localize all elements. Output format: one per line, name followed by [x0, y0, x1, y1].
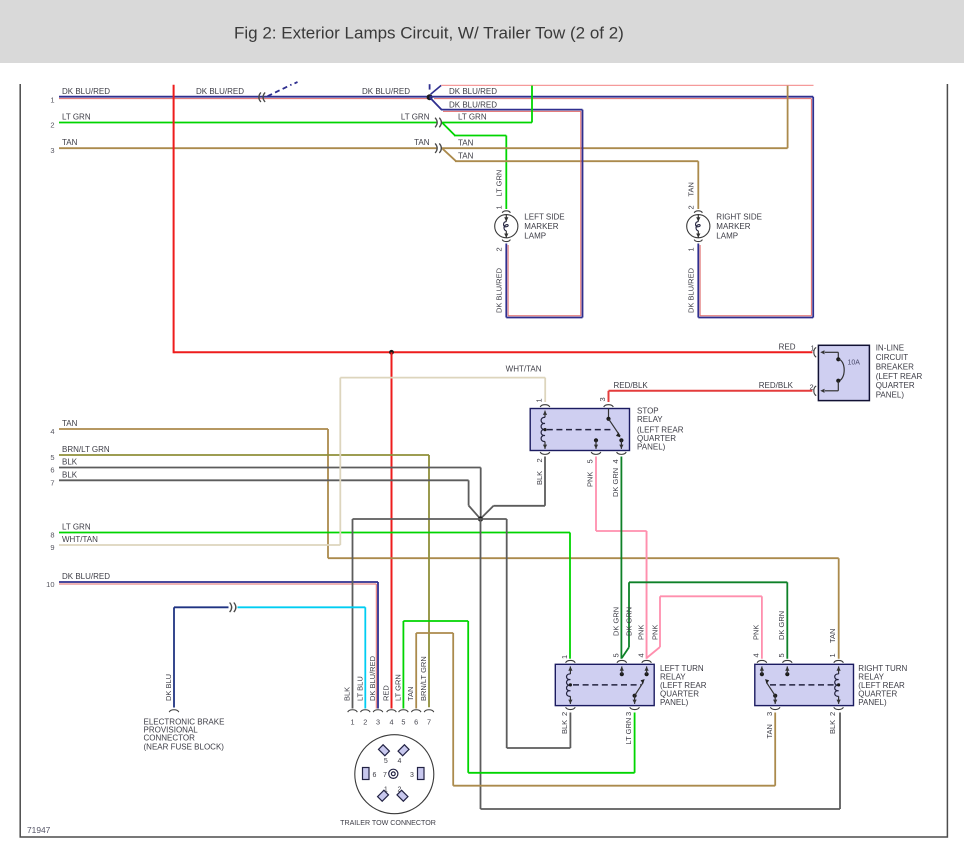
svg-text:RIGHT SIDE: RIGHT SIDE — [716, 213, 762, 222]
trailer connector pin 4 — [398, 745, 409, 756]
trailer connector pin 7 center — [389, 769, 398, 778]
stop relay switch — [608, 409, 610, 419]
dashed continuation stub on wire 1 — [268, 85, 292, 97]
svg-text:RELAY: RELAY — [637, 415, 663, 424]
svg-text:DK BLU/RED: DK BLU/RED — [449, 87, 497, 96]
svg-text:TAN: TAN — [828, 629, 837, 643]
svg-text:PANEL): PANEL) — [637, 442, 666, 451]
RED wire vertical to trailer pin 4 — [391, 352, 393, 708]
svg-text:LAMP: LAMP — [524, 232, 546, 241]
trailer connector pin 1 — [378, 790, 389, 801]
junction dot wire 1 — [427, 94, 433, 100]
stop relay coil — [544, 411, 546, 418]
left relay LT GRN pin 3 wire — [634, 713, 636, 773]
svg-text:5: 5 — [777, 653, 786, 657]
svg-text:DK BLU/RED: DK BLU/RED — [449, 101, 497, 110]
DK BLU wire electronic brake connector — [173, 607, 175, 707]
svg-text:DK BLU/RED: DK BLU/RED — [62, 572, 110, 581]
svg-text:BLK: BLK — [535, 471, 544, 485]
svg-text:MARKER: MARKER — [524, 222, 558, 231]
svg-text:DK GRN: DK GRN — [777, 611, 786, 640]
RED wire vertical from top — [173, 85, 175, 353]
svg-text:Fig 2: Exterior Lamps Circuit,: Fig 2: Exterior Lamps Circuit, W/ Traile… — [234, 24, 624, 43]
svg-text:BLK: BLK — [62, 470, 78, 479]
svg-text:DK GRN: DK GRN — [625, 607, 634, 636]
stop relay pin claws — [540, 405, 550, 407]
svg-text:2: 2 — [363, 717, 367, 726]
right turn relay switch — [760, 672, 764, 676]
svg-text:DK GRN: DK GRN — [612, 607, 621, 636]
stop relay box — [530, 409, 629, 451]
svg-text:1: 1 — [686, 247, 695, 251]
svg-text:4: 4 — [611, 459, 620, 463]
svg-text:TAN: TAN — [458, 151, 474, 160]
svg-text:LT GRN: LT GRN — [458, 112, 487, 121]
svg-text:3: 3 — [624, 712, 633, 716]
svg-text:BREAKER: BREAKER — [876, 362, 914, 371]
PNK wire left relay pin 4 to right relay pin 4 — [647, 647, 660, 658]
svg-text:TAN: TAN — [62, 138, 78, 147]
stop relay dashed line — [547, 429, 612, 431]
wire 1 DK BLU/RED horizontal — [59, 96, 430, 98]
stop relay PNK pin 5 wire — [595, 457, 597, 532]
svg-text:2: 2 — [810, 382, 814, 391]
svg-text:BLK: BLK — [560, 720, 569, 734]
BLK wire junction to right turn relay pin 2 — [480, 519, 482, 809]
svg-text:1: 1 — [828, 653, 837, 657]
svg-text:CONNECTOR: CONNECTOR — [144, 733, 196, 742]
svg-text:7: 7 — [50, 478, 54, 487]
wire 2 LT GRN horizontal — [59, 122, 437, 124]
svg-text:5: 5 — [401, 717, 405, 726]
svg-text:1: 1 — [560, 655, 569, 659]
wire 1 branch to right side lamp circuit — [430, 96, 814, 98]
BLK junction dot — [478, 516, 483, 521]
svg-text:BRN/LT GRN: BRN/LT GRN — [62, 445, 110, 454]
svg-text:4: 4 — [637, 653, 646, 657]
wire 3 branch B to right marker lamp — [443, 149, 457, 162]
svg-text:PANEL): PANEL) — [660, 698, 689, 707]
svg-text:TAN: TAN — [686, 182, 695, 196]
svg-text:2: 2 — [560, 712, 569, 716]
svg-text:4: 4 — [398, 758, 402, 765]
svg-text:4: 4 — [752, 653, 761, 657]
svg-text:QUARTER: QUARTER — [876, 381, 915, 390]
inline connector on wire 1 — [259, 92, 261, 102]
svg-text:RED/BLK: RED/BLK — [614, 381, 649, 390]
svg-text:71947: 71947 — [27, 825, 51, 835]
svg-text:2: 2 — [494, 247, 503, 251]
RED wire horizontal to in-line circuit breaker — [174, 351, 813, 353]
right turn relay box — [755, 664, 854, 705]
svg-text:DK BLU/RED: DK BLU/RED — [368, 655, 377, 701]
trailer pin claws and numbers — [348, 710, 358, 712]
wire 7 BLK — [59, 479, 469, 481]
wire 2 branch A to top — [442, 122, 532, 124]
svg-text:10A: 10A — [848, 360, 861, 367]
svg-text:DK BLU/RED: DK BLU/RED — [494, 267, 503, 313]
svg-text:WHT/TAN: WHT/TAN — [506, 365, 542, 374]
svg-text:LT GRN: LT GRN — [401, 112, 430, 121]
right relay TAN pin 3 wire — [774, 713, 776, 786]
title header bar — [0, 0, 964, 63]
svg-text:DK BLU/RED: DK BLU/RED — [62, 87, 110, 96]
svg-text:TAN: TAN — [458, 139, 474, 148]
wire 6 BLK — [59, 467, 481, 469]
RED/BLK wire stop relay pin 3 to breaker — [608, 391, 610, 402]
electronic brake connector claw — [169, 710, 179, 712]
left turn relay coil — [569, 666, 571, 674]
svg-text:3: 3 — [765, 712, 774, 716]
wire 9 WHT/TAN — [59, 544, 340, 546]
trailer connector pin 5 — [378, 745, 389, 756]
svg-text:STOP: STOP — [637, 407, 659, 416]
TAN vertical to highlight line — [787, 86, 789, 149]
svg-text:5: 5 — [384, 758, 388, 765]
trailer connector pin 6 — [363, 768, 370, 780]
pink highlight line top — [441, 84, 813, 86]
wire 3 TAN horizontal — [59, 147, 437, 149]
wire 8 LT GRN — [59, 532, 570, 534]
svg-text:2: 2 — [686, 205, 695, 209]
right turn relay claws — [757, 660, 767, 662]
svg-text:LT BLU: LT BLU — [355, 676, 364, 701]
svg-text:7: 7 — [383, 772, 387, 779]
svg-text:RED/BLK: RED/BLK — [759, 381, 794, 390]
svg-text:RED: RED — [382, 685, 391, 701]
svg-text:MARKER: MARKER — [716, 222, 750, 231]
svg-text:PNK: PNK — [752, 625, 761, 640]
left turn relay dashed line — [573, 684, 641, 686]
DK GRN wire left relay pin 5 to right relay pin 5 — [622, 647, 629, 658]
svg-text:TRAILER TOW CONNECTOR: TRAILER TOW CONNECTOR — [340, 819, 436, 827]
svg-text:LAMP: LAMP — [716, 232, 738, 241]
breaker pin claws — [814, 348, 816, 358]
svg-text:PNK: PNK — [637, 625, 646, 640]
right side marker lamp — [694, 211, 702, 213]
svg-text:TAN: TAN — [414, 138, 430, 147]
svg-text:TAN: TAN — [62, 419, 78, 428]
stop relay pin 5 contact — [594, 438, 598, 442]
svg-text:DK BLU/RED: DK BLU/RED — [686, 267, 695, 313]
svg-text:IN-LINE: IN-LINE — [876, 344, 904, 353]
wire 3 branch A across top — [442, 147, 788, 149]
svg-text:LT GRN: LT GRN — [494, 170, 503, 197]
wire 2 branch B to left marker lamp — [443, 123, 456, 136]
svg-text:8: 8 — [50, 531, 54, 540]
PNK wire to left turn relay pin 4 — [646, 531, 648, 659]
svg-text:LT GRN: LT GRN — [624, 718, 633, 745]
svg-text:1: 1 — [535, 398, 544, 402]
svg-text:6: 6 — [373, 772, 377, 779]
wire 1 branch 2 to left side lamp circuit — [430, 97, 442, 109]
svg-text:6: 6 — [50, 466, 54, 475]
LT BLU wire to trailer pin 2 — [238, 606, 366, 608]
svg-text:BLK: BLK — [62, 458, 78, 467]
svg-text:5: 5 — [586, 459, 595, 463]
svg-text:5: 5 — [612, 653, 621, 657]
svg-text:3: 3 — [376, 717, 380, 726]
svg-text:DK BLU: DK BLU — [164, 674, 173, 701]
svg-text:1: 1 — [494, 205, 503, 209]
left turn relay switch — [620, 672, 624, 676]
svg-text:5: 5 — [50, 453, 54, 462]
svg-text:RED: RED — [779, 342, 796, 351]
junction dot on RED wire — [389, 350, 394, 355]
svg-text:2: 2 — [535, 458, 544, 462]
wire 10 DK BLU/RED — [59, 581, 378, 583]
in-line circuit breaker box — [818, 345, 869, 400]
LT GRN wire trailer pin 5 to left relay pin 3 — [402, 621, 404, 709]
svg-text:2: 2 — [398, 787, 402, 794]
breaker internal element — [820, 350, 824, 354]
wire 5 BRN/LT GRN — [59, 454, 429, 456]
svg-text:LT GRN: LT GRN — [62, 522, 91, 531]
svg-text:4: 4 — [389, 717, 393, 726]
svg-text:1: 1 — [384, 787, 388, 794]
svg-text:2: 2 — [50, 121, 54, 130]
svg-text:PNK: PNK — [651, 625, 660, 640]
stop relay BLK pin 2 wire — [544, 457, 546, 506]
svg-text:4: 4 — [50, 427, 54, 436]
svg-text:7: 7 — [427, 717, 431, 726]
svg-text:6: 6 — [414, 717, 418, 726]
svg-text:1: 1 — [50, 96, 54, 105]
svg-text:WHT/TAN: WHT/TAN — [62, 535, 98, 544]
svg-text:3: 3 — [50, 146, 54, 155]
left side marker lamp — [502, 211, 510, 213]
svg-text:BLK: BLK — [828, 720, 837, 734]
inline connector on wire 3 — [435, 143, 437, 153]
svg-text:1: 1 — [350, 717, 354, 726]
svg-text:PANEL): PANEL) — [876, 391, 905, 400]
svg-text:LT GRN: LT GRN — [62, 112, 91, 121]
svg-text:DK BLU/RED: DK BLU/RED — [196, 87, 244, 96]
left turn relay box — [555, 664, 654, 705]
wire 4 TAN — [59, 428, 328, 430]
svg-text:LEFT SIDE: LEFT SIDE — [524, 213, 564, 222]
inline connector DK BLU / LT BLU — [230, 603, 232, 613]
left turn relay claws — [566, 660, 576, 662]
svg-text:DK BLU/RED: DK BLU/RED — [362, 87, 410, 96]
svg-text:10: 10 — [46, 580, 54, 589]
svg-text:(LEFT REAR: (LEFT REAR — [876, 372, 923, 381]
right turn relay coil — [838, 666, 840, 674]
svg-text:PNK: PNK — [586, 472, 595, 487]
svg-text:(NEAR FUSE BLOCK): (NEAR FUSE BLOCK) — [144, 742, 225, 751]
svg-text:TAN: TAN — [765, 724, 774, 738]
BLK wire junction to left turn relay pin 2 — [481, 518, 507, 520]
svg-text:CIRCUIT: CIRCUIT — [876, 353, 909, 362]
svg-text:PANEL): PANEL) — [858, 698, 887, 707]
svg-text:TAN: TAN — [406, 687, 415, 701]
svg-text:3: 3 — [598, 397, 607, 401]
trailer connector pin 3 — [418, 768, 425, 780]
svg-text:DK GRN: DK GRN — [611, 468, 620, 497]
trailer connector pin 2 — [397, 790, 408, 801]
svg-text:3: 3 — [410, 772, 414, 779]
svg-text:9: 9 — [50, 543, 54, 552]
LT GRN vertical to highlight line — [531, 86, 533, 123]
right turn relay dashed line — [770, 684, 836, 686]
stop relay DK GRN pin 4 wire — [620, 457, 622, 659]
TAN wire trailer pin 6 to right relay pin 3 — [415, 633, 417, 709]
svg-text:BRN/LT GRN: BRN/LT GRN — [419, 656, 428, 701]
svg-text:2: 2 — [828, 712, 837, 716]
trailer tow connector circle — [355, 735, 434, 814]
svg-text:BLK: BLK — [343, 687, 352, 701]
svg-text:LT GRN: LT GRN — [393, 674, 402, 701]
BLK wire from junction to trailer pin 1 — [353, 518, 481, 520]
inline connector on wire 2 — [435, 118, 437, 128]
